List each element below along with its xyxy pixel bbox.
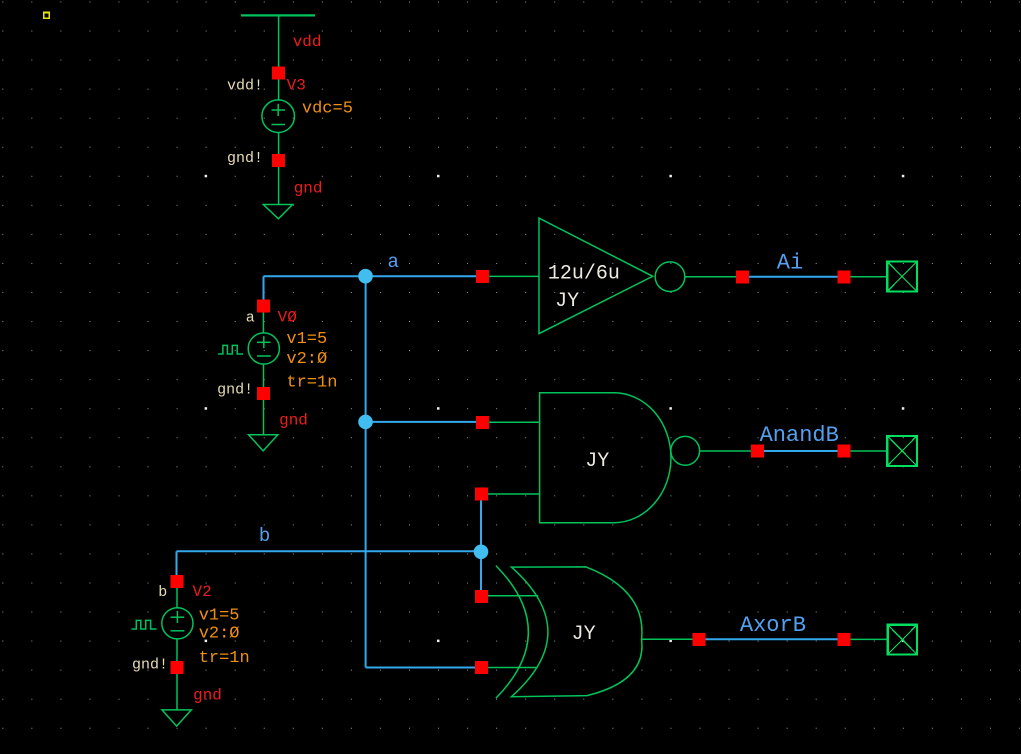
svg-text:AnandB: AnandB xyxy=(760,423,839,448)
XOR gate body xyxy=(511,567,642,697)
pulse waveform icon V2 xyxy=(132,620,157,629)
pin NAND output xyxy=(751,445,764,458)
wire net a: vertical riser from V0 xyxy=(263,276,265,300)
XOR extra input arc xyxy=(496,566,528,699)
XOR input stub top xyxy=(488,595,538,597)
pin V2 plus xyxy=(171,575,184,588)
wire net a: branch to NAND top input xyxy=(366,421,477,423)
wire net AnandB (blue) xyxy=(764,450,838,452)
pin inverter output xyxy=(736,270,749,283)
svg-text:V2: V2 xyxy=(193,583,212,601)
pin V3 plus xyxy=(272,67,285,80)
inverter bubble xyxy=(655,262,685,292)
svg-text:12u/6u: 12u/6u xyxy=(548,263,620,286)
svg-text:JY: JY xyxy=(572,623,596,646)
origin marker (yellow square) xyxy=(44,13,50,19)
node A junction 1 xyxy=(358,269,373,284)
svg-text:gnd!: gnd! xyxy=(217,382,253,399)
node A junction 2 xyxy=(358,415,373,430)
svg-text:gnd: gnd xyxy=(279,412,308,430)
output pin box AxorB xyxy=(888,625,917,655)
inverter output stub xyxy=(685,276,737,278)
XOR input stub bottom xyxy=(488,667,537,669)
pin XOR input top xyxy=(475,590,488,603)
svg-text:gnd: gnd xyxy=(294,180,323,198)
wire net AxorB (blue) xyxy=(705,638,838,640)
svg-text:v1=5: v1=5 xyxy=(286,330,327,349)
wire net b: horizontal to junction xyxy=(177,550,482,552)
svg-text:vdd!: vdd! xyxy=(227,78,263,95)
svg-text:v2:Ø: v2:Ø xyxy=(199,625,240,644)
pulse source V0 body xyxy=(248,312,279,435)
svg-text:a: a xyxy=(246,310,255,327)
svg-text:gnd: gnd xyxy=(193,687,222,705)
red square connection pins xyxy=(171,67,851,675)
svg-text:tr=1n: tr=1n xyxy=(199,649,250,668)
ground V0 xyxy=(249,435,278,451)
svg-text:VØ: VØ xyxy=(278,309,298,327)
pulse waveform icon V0 xyxy=(218,345,243,354)
op-amp-style inverter U? (JY 12u/6u) triangle xyxy=(539,218,653,334)
svg-text:JY: JY xyxy=(585,450,609,473)
svg-text:gnd!: gnd! xyxy=(132,657,168,674)
wire net a: long vertical bus xyxy=(365,276,367,667)
svg-text:a: a xyxy=(388,251,399,273)
XOR output stub xyxy=(642,638,693,640)
pin V0 plus xyxy=(257,299,270,312)
svg-text:b: b xyxy=(158,584,167,601)
output pin box Ai xyxy=(887,262,917,292)
node B junction xyxy=(474,545,489,560)
pulse source V2 body xyxy=(162,588,193,710)
vdd rail symbol xyxy=(241,15,315,100)
pin inverter input xyxy=(476,270,489,283)
svg-text:v2:Ø: v2:Ø xyxy=(286,350,327,369)
wire net b: vertical NAND-to-XOR xyxy=(480,499,482,591)
svg-text:JY: JY xyxy=(555,290,579,313)
ground V3 xyxy=(263,205,292,219)
wire AxorB green segment to pin box xyxy=(850,638,888,640)
NAND bubble xyxy=(671,436,700,465)
pin XOR input bottom xyxy=(475,661,488,674)
svg-text:b: b xyxy=(259,525,270,547)
svg-text:tr=1n: tr=1n xyxy=(286,374,337,393)
NAND input stub top xyxy=(489,421,540,423)
pin NAND input top xyxy=(476,416,489,429)
pin Ai right xyxy=(838,270,851,283)
svg-text:v1=5: v1=5 xyxy=(199,607,240,626)
ground V2 xyxy=(162,710,191,726)
pin XOR output xyxy=(692,633,705,646)
NAND input stub bottom xyxy=(488,493,540,495)
pin V0 minus xyxy=(257,387,270,400)
wire net Ai (blue) xyxy=(749,276,838,278)
wire net a: branch to XOR bottom input xyxy=(366,667,476,669)
pin AxorB right xyxy=(838,633,851,646)
pin NAND input bottom xyxy=(475,488,488,501)
NAND output stub xyxy=(700,450,751,452)
svg-text:gnd!: gnd! xyxy=(227,150,263,167)
NAND gate body xyxy=(540,393,671,523)
wire net b: vertical riser from V2 xyxy=(176,551,178,576)
svg-text:Ai: Ai xyxy=(777,251,803,276)
wire AnandB green segment to pin box xyxy=(850,450,887,452)
svg-text:vdc=5: vdc=5 xyxy=(302,100,353,119)
svg-text:vdd: vdd xyxy=(293,33,322,51)
pin V3 minus xyxy=(272,154,285,167)
pin V2 minus xyxy=(171,661,184,674)
voltage source V3 body xyxy=(262,100,295,205)
output pin box AnandB xyxy=(887,436,917,466)
svg-text:V3: V3 xyxy=(287,77,306,95)
svg-text:AxorB: AxorB xyxy=(740,613,806,638)
wire net a: horizontal to inverter input xyxy=(264,275,478,277)
pin AnandB right xyxy=(838,445,851,458)
wire Ai green segment to pin box xyxy=(850,276,887,278)
inverter input stub xyxy=(489,275,539,277)
